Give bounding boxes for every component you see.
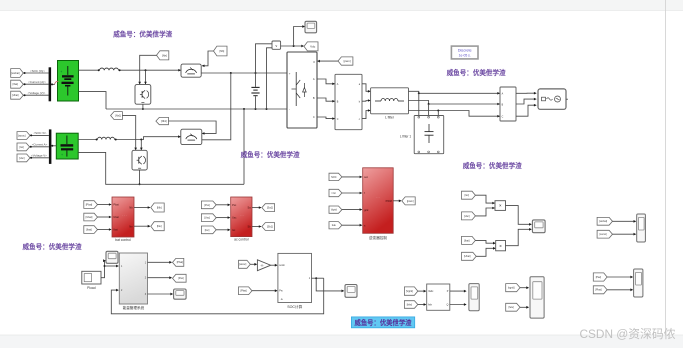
svg-text:-K-: -K- — [260, 263, 264, 267]
svg-text:[Ubat]: [Ubat] — [86, 216, 93, 219]
svg-text:[Isc]: [Isc] — [465, 194, 470, 197]
wire Voltage to tag Usc — [30, 157, 49, 159]
label inverter control — [369, 235, 387, 240]
from tag [Isc] red2 — [201, 226, 216, 234]
wire cap bank stub C — [437, 111, 439, 116]
bus selector bar 2 — [49, 129, 52, 164]
wire socsc to gain — [250, 263, 257, 266]
svg-text:<Current (A)>: <Current (A)> — [28, 80, 46, 84]
svg-text:[Isc]: [Isc] — [205, 229, 210, 232]
energy management subsystem — [119, 253, 147, 304]
wire SOC to tag socbat — [23, 72, 48, 74]
svg-text:Vgrid: Vgrid — [331, 209, 337, 212]
svg-text:[Vgrid]: [Vgrid] — [406, 290, 413, 293]
bottom page band — [0, 335, 683, 348]
from tag [Ibat] product — [462, 236, 476, 244]
wire product1 to scope — [506, 206, 532, 226]
svg-text:· · ·: · · · — [240, 214, 245, 218]
inverter bridge U1 — [287, 52, 317, 128]
wire red2 out Sa1 — [252, 206, 262, 209]
IGBT chopper Q2 upper (horizontal) — [181, 64, 201, 77]
svg-text:L filter: L filter — [385, 116, 395, 120]
scope P compare (tall) — [634, 269, 643, 297]
wire fele to scope — [520, 306, 529, 309]
from tag [vgrid] scope — [506, 284, 520, 292]
gain block -K- — [257, 260, 270, 271]
wire Voltage to tag Ubat — [23, 94, 48, 96]
subsystem PQ measurement — [427, 284, 450, 310]
IGBT chopper Q4 upper (horizontal) — [181, 129, 202, 144]
from tag SOC red3 — [329, 173, 342, 180]
goto tag [Isc] — [17, 143, 30, 151]
watermark text 4 (middle right) — [463, 161, 522, 170]
wire Psc to red2 — [216, 204, 230, 207]
svg-text:<SOC (%)>: <SOC (%)> — [30, 69, 45, 73]
goto tag [pwm] out — [402, 197, 415, 205]
label Pload — [87, 286, 96, 290]
IGBT chopper Q1 lower (vertical) — [135, 85, 151, 105]
goto tag [Ibat] — [11, 80, 24, 88]
svg-text:威鱼号：优美伳学渣: 威鱼号：优美伳学渣 — [463, 161, 522, 170]
three-phase grid source — [538, 89, 568, 109]
svg-text:C: C — [337, 118, 339, 121]
svg-text:逆变器控制: 逆变器控制 — [369, 235, 387, 240]
constant block Pload — [82, 271, 101, 284]
svg-text:fele: fele — [332, 224, 337, 227]
svg-text:[fele]: [fele] — [509, 306, 515, 309]
scope grid (tall) — [530, 277, 544, 318]
svg-text:[fele]: [fele] — [407, 303, 413, 306]
from tag [Isc] product — [462, 191, 476, 199]
goto tag Vdc — [304, 42, 318, 51]
red subsystem bat control — [112, 197, 134, 237]
wire vgrid to scope — [520, 286, 529, 289]
svg-text:[Nb1]: [Nb1] — [161, 120, 167, 123]
wire Usc to red2 — [216, 216, 230, 219]
goto tag [Usc] — [17, 154, 30, 162]
svg-text:[Pbat]: [Pbat] — [595, 289, 602, 292]
svg-text:[Sb1]: [Sb1] — [267, 225, 273, 228]
signal label Current sc — [32, 143, 48, 147]
wire IGBT1 lower emitter to negative rail — [142, 104, 144, 110]
wire red1 out Nb — [134, 206, 150, 209]
svg-text:[Nb]: [Nb] — [157, 205, 162, 209]
svg-text:[socsc]: [socsc] — [18, 134, 26, 137]
from tag [Ubat] product — [462, 252, 477, 260]
from tag [Pac] scope — [593, 273, 607, 281]
svg-text:PWM: PWM — [386, 200, 392, 203]
svg-text:[Ne]: [Ne] — [162, 53, 167, 57]
svg-text:×: × — [499, 203, 502, 208]
IGBT chopper Q3 lower (vertical) — [132, 150, 147, 170]
svg-text:-: - — [289, 107, 290, 111]
wire Ibat to product2 — [475, 240, 495, 244]
svg-text:[Sa1]: [Sa1] — [267, 207, 273, 210]
wire Pload to subsystem and scope — [101, 259, 119, 277]
from tag [fele] scope — [506, 303, 520, 311]
wire gate Ne1 to IGBT2 lower — [122, 116, 137, 151]
red subsystem ac control — [231, 197, 252, 237]
wire meas to filter C — [362, 109, 371, 118]
svg-text:[Pbat]: [Pbat] — [177, 261, 184, 264]
svg-text:[Pac]: [Pac] — [178, 277, 184, 280]
scope PQ (tall) — [469, 284, 479, 311]
wire meas2 to source B — [516, 98, 537, 104]
from tag [Ibat] red1 — [84, 226, 98, 234]
wire Vdc measure plus — [256, 44, 273, 73]
from tag [Ubat] red1 — [84, 213, 98, 221]
from tag [socsc] soccalc — [239, 260, 251, 268]
watermark text 5 (bottom left) — [23, 242, 82, 251]
label energy management — [123, 305, 145, 310]
svg-text:[Pbat]: [Pbat] — [86, 204, 93, 207]
svg-text:[Ne]: [Ne] — [157, 224, 162, 228]
from tag [Pbat] red1 — [84, 201, 98, 209]
svg-text:L filter 1: L filter 1 — [400, 135, 411, 139]
DC negative rail — [106, 108, 287, 110]
from tag [socsc] scope — [597, 230, 612, 238]
label ac control — [234, 237, 249, 241]
wire phase A filter to grid line — [409, 91, 501, 94]
scope power (products) — [532, 220, 545, 233]
wire red3 out pwm — [393, 200, 401, 203]
wire Vgrid to pq block — [418, 290, 427, 293]
label SOC calc — [287, 304, 302, 309]
scope Vdc — [305, 21, 317, 33]
battery Battery1 (green) — [55, 61, 79, 102]
goto tag [Sa1] out — [262, 204, 275, 212]
label L filter 1 — [400, 135, 411, 139]
from tag Vgrid red3 — [329, 206, 342, 213]
svg-text:[pwm]: [pwm] — [344, 59, 351, 63]
wire node to IGBT2 lower collector — [140, 140, 143, 151]
from tag [Psc] red2 — [201, 201, 216, 209]
wire Vgrid to red3 — [342, 208, 362, 211]
from tag [pwm] at inverter — [338, 57, 353, 65]
svg-text:[Usc]: [Usc] — [19, 157, 25, 160]
svg-text:Vabc: Vabc — [428, 290, 434, 293]
signal label Current A — [28, 80, 46, 84]
wire Vm output to Vdc tag — [281, 45, 304, 48]
wire branch to Vdc scope — [294, 25, 305, 46]
wire SOC to red3 — [342, 176, 362, 179]
svg-text:[socbat]: [socbat] — [11, 72, 20, 75]
svg-text:×: × — [499, 243, 502, 248]
wire phase B filter to grid line — [409, 101, 501, 106]
wire ems out3 to scope — [148, 293, 174, 296]
wire Isc to product1 — [475, 195, 495, 204]
svg-text:Ibat: Ibat — [113, 229, 117, 232]
goto tag [Pbat] out — [173, 258, 184, 266]
scope SOC — [345, 285, 357, 298]
wire meas2 to source C — [516, 104, 537, 116]
watermark text 3 (middle left) — [241, 150, 300, 159]
svg-text:ac control: ac control — [234, 237, 249, 241]
svg-text:威鱼号：优美伳学渣: 威鱼号：优美伳学渣 — [113, 30, 172, 39]
wire battery1 plus to inductor — [79, 69, 100, 71]
wire ems out2 to Pac tag — [148, 276, 173, 279]
svg-text:A: A — [313, 77, 315, 81]
wire soc out to scope — [312, 277, 345, 292]
three-phase VI measurement block 1 — [335, 74, 362, 129]
wire meas to filter A — [362, 84, 371, 93]
capacitive filter bank block — [414, 116, 444, 154]
DC link capacitor C1 — [251, 73, 259, 109]
product block 2 — [496, 241, 506, 251]
wire red1 out Ne — [134, 225, 150, 228]
wire converter2 negative riser — [243, 109, 245, 184]
wire gate Ne to IGBT1 lower — [138, 55, 156, 84]
powergui block Discrete — [451, 46, 478, 59]
svg-text:SOC: SOC — [331, 176, 337, 179]
svg-text:Psc: Psc — [232, 204, 237, 207]
svg-text:[Usc]: [Usc] — [464, 215, 470, 218]
svg-text:[vgrid]: [vgrid] — [508, 287, 515, 290]
from tag [Vgrid] pq — [404, 287, 417, 295]
label bat control — [115, 238, 131, 242]
from tag [Usc] red2 — [201, 214, 216, 222]
svg-text:<Voltage (V)>: <Voltage (V)> — [28, 91, 46, 95]
svg-text:威鱼号：优美伳学渣: 威鱼号：优美伳学渣 — [447, 68, 506, 77]
supercapacitor block (green) — [56, 133, 78, 159]
svg-text:socin: socin — [279, 264, 285, 267]
three-phase VI measurement block 2 — [500, 87, 516, 121]
svg-text:bat control: bat control — [115, 238, 131, 242]
wire battery2 minus rail — [78, 152, 244, 184]
wire meas to filter B — [362, 99, 371, 102]
svg-text:[pwm]: [pwm] — [407, 200, 414, 203]
goto tag [socbat] — [11, 69, 24, 78]
wire Usc to product1 — [475, 207, 495, 216]
wire inductor2 to node — [115, 135, 181, 140]
from tag [Nb] — [214, 46, 228, 56]
svg-text:<Voltage V>: <Voltage V> — [31, 154, 47, 158]
wire pwm to inverter gate — [317, 60, 338, 63]
svg-text:Discrete: Discrete — [458, 49, 472, 53]
from tag fele red3 — [329, 222, 342, 229]
wire Pbat to red1 — [98, 203, 112, 206]
bus selector bar 1 — [49, 67, 52, 101]
svg-text:+: + — [60, 70, 62, 74]
svg-text:CSDN @资深码侬: CSDN @资深码侬 — [580, 327, 676, 341]
from tag [Pbat] scope — [593, 286, 607, 294]
signal label SOC sc — [33, 131, 46, 135]
svg-text:[Pac]: [Pac] — [596, 276, 602, 279]
top page band — [0, 0, 683, 11]
from tag [Usc] product — [462, 212, 476, 220]
scope SOC compare (tall) — [637, 214, 646, 242]
faint right vertical divider — [665, 0, 667, 335]
svg-text:[socsc]: [socsc] — [239, 264, 247, 266]
wire pq out1 to scope — [450, 290, 467, 293]
svg-text:· · ·: · · · — [122, 214, 127, 218]
wire battery2 m port to bus bar — [51, 145, 56, 147]
signal label Voltage sc — [31, 154, 47, 158]
svg-text:Pbat: Pbat — [113, 204, 118, 207]
wire Pbat to soc block — [252, 289, 278, 292]
wire red2 out Sb1 — [252, 225, 262, 228]
from tag [Ne1] — [111, 112, 123, 120]
svg-text:Usc: Usc — [232, 217, 237, 220]
feedback wire SOC to ems — [111, 278, 323, 314]
from tag f-Gr red3 — [329, 189, 342, 196]
svg-text:[Ubat]: [Ubat] — [464, 255, 471, 258]
from tag [fele] pq — [404, 301, 417, 309]
svg-text:威鱼号：优美伳学渣: 威鱼号：优美伳学渣 — [23, 242, 82, 251]
svg-text:Q: Q — [447, 304, 449, 307]
goto tag [Ubat] — [11, 91, 24, 99]
svg-text:f-Gr: f-Gr — [332, 192, 336, 195]
watermark text 1 (top left) — [113, 30, 172, 39]
wire phase C inverter to meas — [317, 117, 335, 120]
wire phase A inverter to meas — [317, 79, 335, 85]
goto tag [Sb1] out — [262, 223, 275, 231]
svg-text:[Ibat]: [Ibat] — [86, 229, 92, 232]
wire fGr to red3 — [342, 192, 362, 195]
wire fele to pq block — [418, 303, 427, 306]
from tag [Nb1] — [156, 117, 169, 124]
wire Pac to scope — [607, 276, 633, 279]
svg-text:· · ·: · · · — [376, 195, 381, 199]
red subsystem inverter control — [363, 168, 394, 234]
svg-text:[Ibat]: [Ibat] — [464, 239, 470, 242]
svg-text:[Pbat]: [Pbat] — [240, 290, 247, 293]
svg-text:[Ubat]: [Ubat] — [12, 94, 19, 97]
svg-text:grid: grid — [364, 209, 369, 212]
svg-text:fele: fele — [428, 304, 433, 307]
svg-text:SOC计算: SOC计算 — [287, 304, 302, 309]
watermark text 6 (highlighted cyan) — [351, 317, 414, 328]
svg-text:[Ne1]: [Ne1] — [115, 114, 121, 117]
wire phase C filter to grid line — [409, 110, 501, 118]
wire gain to soc block — [271, 264, 278, 267]
svg-text:C: C — [313, 115, 315, 119]
wire socsc to scope — [613, 233, 637, 236]
wire pq out2 to scope — [450, 303, 467, 306]
wire cap bank stub B — [428, 104, 430, 116]
goto tag [socsc] — [17, 132, 30, 140]
wire socbat to scope — [613, 220, 637, 223]
wire node to IGBT1 lower collector — [144, 70, 147, 84]
CSDN watermark — [580, 327, 676, 341]
label L filter — [385, 116, 395, 120]
svg-text:Pload: Pload — [87, 286, 96, 290]
wire Ibat to red1 — [98, 228, 112, 231]
wire Vdc measure minus — [267, 48, 273, 109]
DC positive rail — [201, 72, 287, 74]
wire Current to tag Ibat — [23, 83, 48, 85]
subsystem SOC calculation — [278, 253, 312, 302]
wire battery1 m port to bus bar — [51, 83, 55, 85]
wire Pbat to scope — [607, 288, 633, 291]
wire IGBT2 lower emitter down — [139, 170, 141, 185]
from tag [socbat] scope — [597, 217, 612, 225]
svg-text:<Current A>: <Current A> — [32, 143, 48, 147]
svg-text:Ubat: Ubat — [113, 216, 119, 219]
svg-text:[socbat]: [socbat] — [599, 220, 607, 223]
svg-text:[socsc]: [socsc] — [600, 234, 608, 236]
svg-text:[Nb]: [Nb] — [220, 49, 225, 53]
wire gate Nb1 to IGBT2 upper — [169, 121, 217, 135]
svg-text:[Psc]: [Psc] — [204, 204, 210, 207]
wire battery1 minus down to negative rail — [79, 92, 107, 109]
svg-text:1e-05 s.: 1e-05 s. — [459, 54, 471, 58]
wire meas2 to source A — [516, 92, 537, 95]
wire cap bank stub A — [418, 93, 420, 115]
inductive filter block L filter — [371, 88, 409, 114]
wire Ubat to product2 — [476, 247, 496, 256]
svg-text:能量管理系统: 能量管理系统 — [123, 305, 145, 310]
wire phase B inverter to meas — [317, 98, 335, 103]
product block 1 — [495, 201, 506, 211]
svg-text:威鱼号：优美伳学渣: 威鱼号：优美伳学渣 — [355, 318, 412, 327]
svg-text:<SOC %>: <SOC %> — [33, 131, 46, 135]
scope ems out3 — [174, 289, 187, 299]
svg-text:v: v — [275, 44, 277, 48]
wire fele to red3 — [342, 224, 362, 227]
svg-text:Vdc: Vdc — [310, 45, 316, 49]
wire Current to tag Isc — [30, 146, 49, 148]
from tag [Ne] — [157, 51, 169, 60]
svg-text:[Isc]: [Isc] — [19, 146, 24, 149]
svg-text:威鱼号：优美伳学渣: 威鱼号：优美伳学渣 — [241, 150, 300, 159]
wire product2 to scope — [506, 228, 532, 246]
wire inductor to IGBT input node — [119, 69, 182, 72]
goto tag [Nb] out — [151, 203, 164, 212]
inductor L1 — [100, 68, 119, 70]
svg-text:B: B — [313, 96, 315, 100]
svg-text:[Usc]: [Usc] — [204, 217, 210, 220]
goto tag [Ne] out — [151, 222, 164, 231]
wire ems out1 to Pbat tag — [148, 261, 173, 264]
from tag [Pbat] soccalc — [239, 287, 253, 295]
signal label Voltage V — [28, 91, 46, 95]
svg-text:Pw: Pw — [279, 290, 283, 293]
svg-text:[Ibat]: [Ibat] — [13, 83, 19, 86]
inductor L2 — [98, 137, 115, 139]
wire IGBT2 upper output to positive rail — [202, 73, 231, 140]
wire SOC to tag socsc — [30, 134, 49, 136]
voltage measurement block Vdc — [272, 41, 281, 49]
goto tag [Pac] out — [173, 274, 187, 282]
wire Ubat to red1 — [98, 216, 112, 219]
wire Isc to red2 — [216, 229, 230, 232]
watermark text 2 (top right) — [447, 68, 506, 77]
svg-text:+: + — [61, 153, 63, 157]
wire gate Nb to IGBT1 upper — [202, 51, 214, 67]
wire battery2 plus to inductor2 — [78, 139, 97, 141]
signal label SOC % — [30, 69, 45, 73]
scope Pload — [106, 251, 118, 263]
